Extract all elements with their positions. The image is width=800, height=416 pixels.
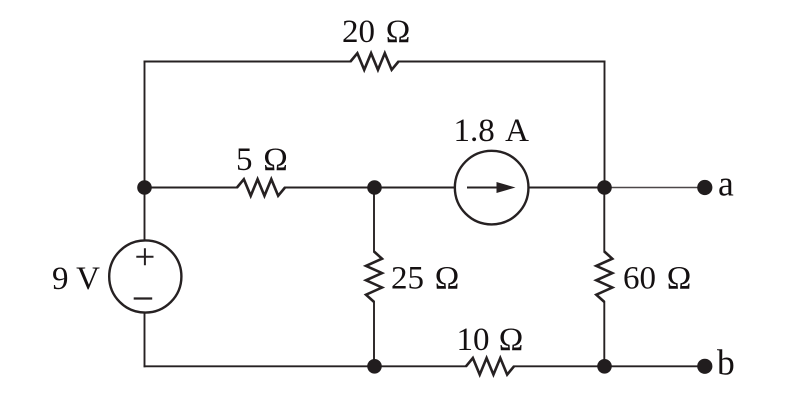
svg-text:60 Ω: 60 Ω [623,261,691,297]
svg-text:a: a [718,164,734,204]
node bottom right [597,359,612,374]
terminal b dot [697,359,712,374]
svg-text:20 Ω: 20 Ω [342,14,410,50]
node bottom middle [367,359,382,374]
node right middle [597,180,612,195]
wire top-left horizontal [145,61,351,63]
current source arrow head [497,182,516,193]
node left middle [137,180,152,195]
wire middle vertical lower [373,302,375,366]
resistor 20 ohm zigzag [351,53,399,70]
wire left vertical upper [144,62,146,188]
wire 5ohm to middle node [285,187,454,189]
resistor 5 ohm zigzag [237,179,285,196]
wire middle left segment [145,187,238,189]
wire middle vertical upper [373,188,375,252]
voltage source plus sign [136,248,153,265]
voltage source 9V circle [109,240,181,312]
wire 60ohm to bottom node [603,302,605,366]
wire bottom-left horizontal [145,365,467,367]
wire right node to 60ohm [603,188,605,252]
wire right vertical upper [604,62,606,188]
resistor 60 ohm zigzag [596,252,612,302]
node middle [367,180,382,195]
svg-text:25 Ω: 25 Ω [391,261,459,297]
wire bottom node to terminal b [605,365,705,367]
voltage source minus sign [134,297,153,299]
svg-text:1.8 A: 1.8 A [454,113,530,149]
wire top-right horizontal [399,61,605,63]
wire source bottom to bottom rail [144,314,146,367]
wire right node to terminal a [605,187,705,189]
wire left vertical to source top [144,188,146,240]
svg-text:10 Ω: 10 Ω [457,322,524,358]
current source arrow shaft [467,187,499,189]
wire 10ohm to bottom-right node [514,365,605,367]
terminal a dot [697,180,712,195]
resistor 25 ohm zigzag [366,252,382,302]
svg-text:b: b [717,342,735,382]
resistor 10 ohm zigzag [466,358,514,375]
current source 1.8A circle [455,151,529,225]
svg-text:9 V: 9 V [52,261,100,297]
svg-text:5 Ω: 5 Ω [236,142,288,178]
wire current source to right node [529,187,604,189]
